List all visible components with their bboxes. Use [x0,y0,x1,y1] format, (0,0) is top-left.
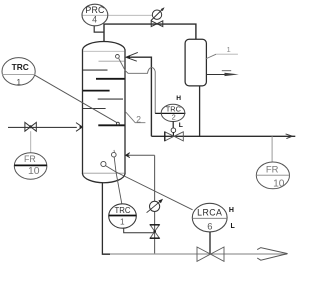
PRC impulse tap [94,26,104,32]
tray t5 [83,90,110,92]
reflux drum E1 [185,39,206,86]
svg-text:LRCA: LRCA [197,207,222,217]
svg-text:L: L [179,122,183,129]
label 2 leader [126,112,146,123]
product arrow [286,134,293,139]
control valve V1 body [151,21,163,27]
svg-text:TRC: TRC [12,62,29,72]
FR10 left tap [30,131,32,153]
sensor B lead [106,166,117,172]
overhead vapour pipe [104,24,196,41]
instrument FR 10 left [14,153,47,179]
tray t8 [98,124,124,126]
drum bottom outlet pipe [199,86,201,136]
svg-text:2: 2 [136,114,141,124]
column bottom sensor B [101,161,106,166]
bottoms downcomer [102,183,110,254]
svg-text:L: L [231,223,236,230]
regulator symbol on steam line [150,201,160,211]
tray t4 [96,78,125,80]
svg-text:2: 2 [172,113,176,122]
svg-text:1: 1 [120,218,125,227]
TRC1 top sensing diagonal [35,75,117,123]
instrument TRC 1 bottom [109,204,137,228]
bottoms flow arrow [257,248,287,261]
tray t2 [99,60,125,62]
instrument TRC 2 [161,104,185,121]
FR10 right tap [271,136,273,162]
tray t6 [98,98,123,100]
svg-text:H: H [176,95,181,102]
sensor A lead [114,157,116,172]
steam line into column [126,154,155,156]
sensor circle top [116,55,120,59]
svg-text:H: H [229,207,234,214]
svg-text:10: 10 [28,166,40,177]
lead junction to TRC1 [116,172,122,204]
feed line [8,126,77,128]
control valve V1 actuator [152,10,161,19]
tray t3 [83,69,108,71]
reflux riser pipe [127,57,152,136]
svg-text:1: 1 [226,45,230,54]
reflux arrow into column [126,52,138,61]
column K1 shell [83,42,126,183]
instrument FR 10 right [256,162,289,189]
vent line with arrow [206,74,233,76]
weld seam line [83,50,125,52]
svg-text:FR: FR [266,164,279,175]
instrument PRC 4 [82,4,108,26]
svg-text:TRC: TRC [114,206,130,215]
lead junction to LRCA [116,172,193,210]
svg-text:1: 1 [16,77,21,87]
feed valve V5 [25,122,36,131]
PRC signal line [82,14,152,16]
tray t7 [83,108,106,110]
reflux control valve V2 [165,132,184,141]
feed arrow [76,123,82,132]
svg-text:10: 10 [273,178,285,189]
TRC2 bold connector / divider [155,112,185,114]
svg-text:FR: FR [24,154,36,164]
instrument LRCA 6 [192,203,227,232]
instrument TRC 1 top left [2,58,35,86]
TRC1 signal to steam valve [124,228,155,233]
distillate product line [151,135,295,137]
bottom weld seam [83,172,125,174]
column bottom sensor A [113,150,115,153]
label 1 leader [206,54,216,59]
TRC2 valve stem [172,122,174,129]
svg-text:4: 4 [92,14,97,24]
LRCA valve stem [209,232,211,254]
svg-text:6: 6 [207,221,212,232]
TRC2 sensing line with hop [119,58,156,113]
steam valve V3 (vertical) [150,225,159,238]
bottoms valve V4 [197,247,224,261]
bottoms line [102,253,287,255]
